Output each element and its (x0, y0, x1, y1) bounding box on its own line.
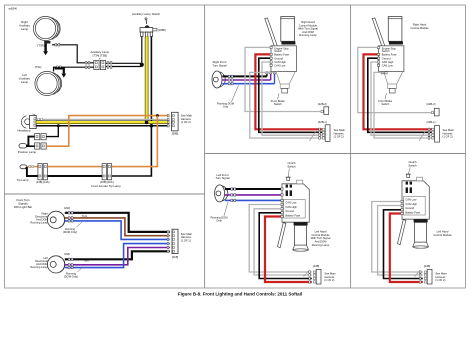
panel divider vertical 1 (204, 5, 206, 288)
clutch switch label p6 (408, 160, 417, 174)
wire black ground (259, 58, 322, 132)
svg-text:CAN Low: CAN Low (405, 197, 416, 201)
right auxiliary lamp label (19, 20, 30, 31)
svg-text:Position Lamp: Position Lamp (18, 150, 37, 154)
svg-text:CAN Low: CAN Low (382, 63, 393, 67)
wire rt lamp violet (222, 74, 270, 81)
RH module label (298, 20, 318, 37)
svg-text:Ground: Ground (405, 206, 414, 210)
svg-text:Figure B-8. Front Lighting and: Figure B-8. Front Lighting and Hand Cont… (178, 292, 302, 297)
left auxiliary lamp (35, 71, 62, 95)
svg-text:Battery Fuse: Battery Fuse (274, 53, 289, 57)
wire tip lamp black stub (26, 168, 38, 176)
running label left (64, 267, 83, 279)
wire black p5 (259, 213, 312, 279)
RH module cylinder grip (280, 17, 295, 45)
wire tip orange run (48, 166, 103, 168)
svg-text:(1 OF 2): (1 OF 2) (181, 120, 191, 124)
svg-text:CAN Low: CAN Low (285, 200, 296, 204)
left front turn signal label (215, 173, 230, 180)
wire gray brake switch r (374, 72, 432, 140)
auxiliary lamp switch (132, 12, 166, 37)
svg-text:(DOM Only): (DOM Only) (63, 230, 77, 234)
position lamp connector upper (35, 134, 47, 140)
svg-text:CAN High: CAN High (382, 60, 394, 64)
panel divider horizontal right (205, 153, 466, 155)
section label (14, 198, 32, 209)
wire red p5 (265, 217, 312, 283)
svg-text:CAN High: CAN High (285, 205, 297, 209)
wire orange position lamp net (46, 116, 169, 147)
svg-text:[22B-1]: [22B-1] (318, 120, 327, 124)
wire left turn GND black (65, 251, 170, 260)
svg-text:With Light Bar: With Light Bar (14, 205, 32, 209)
svg-text:Turn Signal: Turn Signal (215, 176, 230, 180)
panel divider vertical 2 (350, 5, 352, 288)
wire gray1 p5 (249, 205, 312, 273)
position lamp (18, 144, 37, 154)
wire lt lamp violet (225, 194, 281, 196)
running label mid (217, 85, 239, 108)
ground left aux lamp (55, 68, 67, 77)
connector 24B p5 (309, 264, 336, 284)
wire position lamp to black net (46, 124, 60, 136)
clutch switch symbol p6 (406, 174, 412, 193)
wire left turn violet (65, 248, 170, 267)
RH module box (266, 46, 297, 74)
svg-text:[22B-2]: [22B-2] (427, 102, 436, 106)
LH cylinder grip p5 (293, 222, 309, 251)
right directional lamp (47, 211, 64, 228)
right front turn signal lamp (212, 71, 225, 88)
wire gray can (262, 62, 322, 135)
LH2 clutch lever (398, 220, 406, 245)
RH2 brake lever (372, 18, 385, 48)
svg-text:Control Module: Control Module (433, 233, 452, 237)
clutch switch label p5 (287, 161, 296, 177)
left directional lamp (47, 256, 64, 273)
left front turn signal lamp (215, 185, 228, 202)
wire headlamp gray (36, 118, 169, 120)
svg-text:[21B]: [21B] (172, 255, 179, 259)
svg-text:Switch: Switch (287, 164, 296, 168)
right front turn signal label (212, 60, 227, 67)
wire position lamp upper black (26, 137, 34, 146)
main harness connector 21B (167, 229, 192, 259)
front brake switch label 2 (378, 93, 393, 106)
svg-text:[24B]: [24B] (313, 264, 320, 268)
turn label left (83, 259, 89, 263)
svg-text:Control Module: Control Module (410, 26, 429, 30)
connector 24B p6 (419, 264, 447, 284)
svg-text:(1 OF 2): (1 OF 2) (435, 278, 445, 282)
position lamp connector lower (35, 143, 47, 149)
LH module label p5 (311, 230, 331, 247)
connector label T3L (35, 65, 42, 69)
connector label T3R (37, 43, 44, 47)
RH brake lever (265, 18, 278, 48)
wire position lamp lower (26, 145, 34, 147)
wire orange branch to tip lamp (111, 116, 157, 167)
wire headlamp yellow (36, 121, 169, 125)
left directional lamp label (30, 256, 48, 269)
clutch switch symbol p5 (286, 177, 292, 196)
tip lamp connector 14B 14A (36, 164, 50, 185)
main harness connector 38B (167, 112, 192, 135)
LH2 cylinder grip (413, 219, 429, 248)
svg-text:Ground: Ground (285, 209, 294, 213)
GND label right (64, 206, 70, 210)
svg-text:Turn: Turn (83, 259, 89, 263)
LH module text box p5 (281, 188, 305, 218)
svg-text:Running Lamp: Running Lamp (30, 220, 48, 224)
running label p5 (210, 202, 228, 222)
svg-text:Only: Only (216, 218, 222, 222)
svg-text:Headlamp: Headlamp (17, 129, 31, 133)
wire lt lamp black (225, 188, 281, 190)
svg-text:Lamp: Lamp (21, 80, 29, 84)
wire red p6 (390, 214, 423, 283)
RH2 module cylinder grip (388, 17, 403, 45)
LH2 module text box (401, 196, 425, 215)
wire tip lamp orange stub (27, 165, 38, 167)
svg-text:[22B-1]: [22B-1] (427, 120, 436, 124)
wire gray1 p6 (372, 202, 423, 273)
RH2 module funnel mount (384, 72, 403, 93)
wires aux connector to switch junction (106, 62, 142, 69)
RH2 module box (378, 46, 404, 74)
wire black ground r (368, 58, 432, 132)
running label right (63, 222, 82, 234)
svg-text:(DOM Only): (DOM Only) (64, 275, 78, 279)
svg-text:CAN High: CAN High (274, 60, 286, 64)
wire gray2 p5 (254, 209, 312, 277)
RH2 module label (410, 23, 429, 30)
wire tip black run (48, 175, 103, 177)
svg-text:Turn Signal: Turn Signal (212, 63, 227, 67)
svg-text:Running Lamp: Running Lamp (312, 243, 330, 247)
svg-text:Switch: Switch (408, 163, 417, 167)
wire rt lamp black (222, 74, 267, 78)
svg-text:[24B]: [24B] (424, 264, 431, 268)
sheet number (9, 8, 18, 11)
svg-text:GND: GND (64, 206, 70, 210)
LH2 module label (433, 230, 452, 237)
svg-text:Ground: Ground (382, 56, 391, 60)
LH clutch lever p5 (278, 223, 286, 248)
wire headlamp black (36, 125, 169, 127)
right directional lamp label (30, 211, 48, 224)
svg-text:Battery Fuse: Battery Fuse (285, 214, 300, 218)
wire gray can r (371, 62, 432, 135)
svg-text:CAN Low: CAN Low (274, 63, 285, 67)
wire left running blue (65, 244, 170, 269)
svg-text:Switch: Switch (274, 102, 282, 106)
junction aux switch feed (140, 63, 144, 67)
svg-text:[38B]: [38B] (172, 131, 179, 135)
junction black (150, 124, 154, 128)
wire right aux lamp feed (52, 44, 94, 64)
svg-text:CAN High: CAN High (405, 202, 417, 206)
svg-text:[T3R]: [T3R] (37, 43, 44, 47)
wire gray engine-stop loop to 22B-2 r (358, 47, 431, 112)
LH2 module body (402, 177, 429, 219)
svg-text:Running Lamp: Running Lamp (30, 265, 48, 269)
svg-text:Auxiliary Lamp Switch: Auxiliary Lamp Switch (132, 12, 161, 16)
connector 22B-1 right (427, 120, 455, 142)
svg-text:wd0546: wd0546 (9, 8, 18, 11)
svg-text:[108B]: [108B] (158, 28, 166, 32)
connector 22B-2 right (427, 102, 439, 116)
headlamp (17, 114, 36, 133)
svg-text:(1 OF 2): (1 OF 2) (443, 135, 453, 139)
svg-text:(1 OF 2): (1 OF 2) (181, 238, 191, 242)
svg-text:[14B] [14A]: [14B] [14A] (36, 180, 50, 184)
svg-text:[22B-2]: [22B-2] (318, 102, 327, 106)
svg-text:Only: Only (223, 104, 229, 108)
RH module funnel mount (276, 72, 295, 93)
wire right running blue (65, 220, 170, 240)
right auxiliary lamp (33, 16, 60, 43)
connector 22B-1 mid (318, 120, 345, 141)
caption (178, 292, 302, 297)
wire switch pin2 yellow (145, 37, 149, 123)
svg-text:(1 OF 2): (1 OF 2) (324, 278, 334, 282)
wire black p6 (384, 210, 423, 279)
connector 22B-2 mid (318, 102, 329, 114)
svg-text:Switch: Switch (382, 49, 390, 53)
wire lt lamp blue (225, 199, 281, 201)
junction yellow (145, 121, 149, 125)
svg-text:Switch: Switch (274, 49, 282, 53)
svg-text:Battery Fuse: Battery Fuse (405, 211, 420, 215)
svg-text:Tip Lamp: Tip Lamp (17, 178, 29, 182)
LH module body p5 (282, 180, 309, 222)
svg-text:GND: GND (64, 252, 70, 256)
turn label right (82, 214, 88, 218)
junction orange (156, 114, 159, 117)
ground right aux lamp (43, 44, 48, 56)
wire red battery r (364, 54, 432, 129)
wire left aux lamp feed (54, 66, 94, 72)
wire rt lamp blue (222, 74, 274, 85)
svg-text:Running Lamp: Running Lamp (299, 33, 317, 37)
wire right turn GND black (65, 212, 170, 232)
left auxiliary lamp label (19, 73, 30, 84)
wire right turn brown (65, 217, 170, 236)
tip lamp (17, 165, 29, 182)
GND label left (64, 252, 70, 256)
front brake switch label (271, 93, 286, 106)
svg-text:Ground: Ground (274, 56, 283, 60)
svg-text:Battery Fuse: Battery Fuse (382, 53, 397, 57)
wire switch pin1 black (141, 37, 143, 65)
svg-text:[T3L]: [T3L] (35, 65, 42, 69)
svg-text:(1 OF 2): (1 OF 2) (334, 135, 344, 139)
wire switch pin3 black (111, 37, 151, 177)
svg-text:Switch: Switch (381, 102, 389, 106)
wire gray brake switch (250, 72, 322, 140)
wire gray engine-stop loop to 22B-2 (245, 47, 321, 111)
tip lamp connector 32B 32A (91, 164, 121, 188)
panel divider horizontal left (5, 193, 205, 195)
svg-text:Lamp: Lamp (21, 27, 29, 31)
wire gray2 p6 (378, 206, 423, 277)
svg-text:Front Fender Tip Lamp: Front Fender Tip Lamp (91, 184, 121, 188)
wire red battery (255, 54, 322, 129)
auxiliary lamp connector T34/T3B (90, 50, 109, 70)
